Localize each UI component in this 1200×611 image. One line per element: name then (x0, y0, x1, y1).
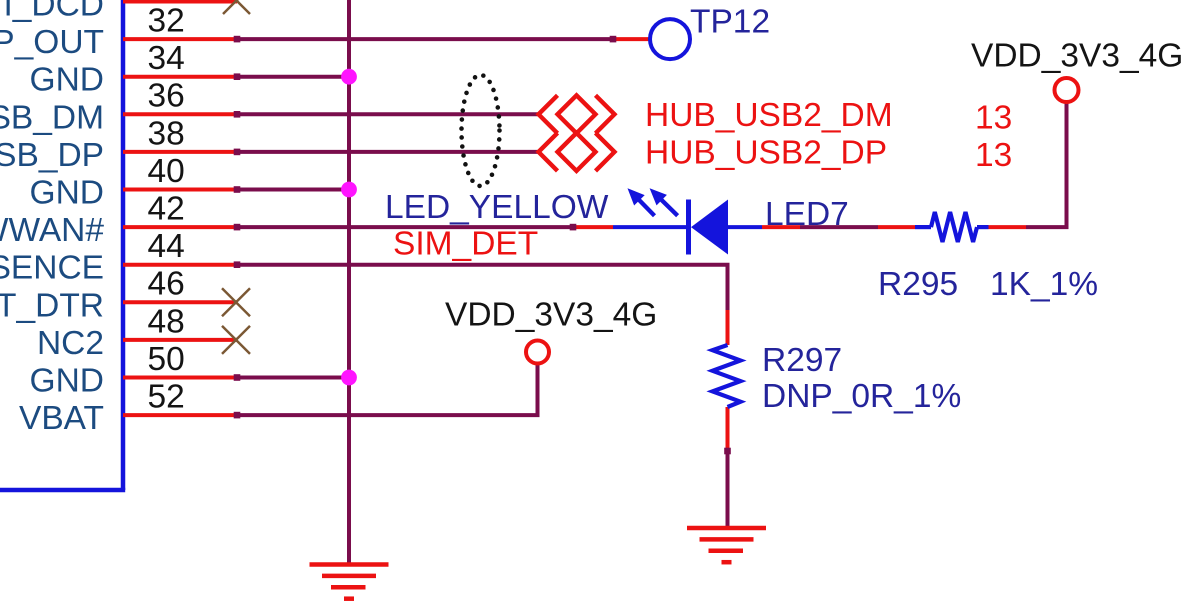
svg-text:GND: GND (30, 363, 104, 400)
svg-text:GND: GND (30, 62, 104, 99)
svg-text:DNP_0R_1%: DNP_0R_1% (762, 378, 961, 415)
svg-text:42: 42 (148, 191, 185, 228)
svg-text:44: 44 (148, 228, 185, 265)
svg-text:HUB_USB2_DM: HUB_USB2_DM (645, 97, 893, 134)
svg-text:LED_YELLOW: LED_YELLOW (385, 189, 609, 226)
svg-text:13: 13 (975, 137, 1012, 174)
svg-text:52: 52 (148, 379, 185, 416)
svg-text:HUB_USB2_DP: HUB_USB2_DP (645, 134, 887, 171)
svg-text:46: 46 (148, 266, 185, 303)
svg-text:R295: R295 (878, 266, 958, 303)
svg-text:13: 13 (975, 99, 1012, 136)
svg-text:SB_DM: SB_DM (0, 99, 104, 136)
svg-text:I_DCD: I_DCD (3, 0, 104, 24)
svg-text:NC2: NC2 (37, 325, 104, 362)
svg-text:T_DTR: T_DTR (0, 287, 104, 324)
svg-text:SENCE: SENCE (0, 250, 104, 287)
svg-text:TP12: TP12 (690, 4, 770, 41)
svg-text:VDD_3V3_4G: VDD_3V3_4G (971, 38, 1183, 75)
svg-text:VDD_3V3_4G: VDD_3V3_4G (445, 297, 657, 334)
svg-text:40: 40 (148, 153, 185, 190)
svg-text:SIM_DET: SIM_DET (393, 226, 538, 263)
svg-text:P_OUT: P_OUT (0, 24, 104, 61)
svg-text:GND: GND (30, 175, 104, 212)
svg-text:32: 32 (148, 3, 185, 40)
svg-text:34: 34 (148, 40, 185, 77)
svg-text:1K_1%: 1K_1% (990, 266, 1098, 303)
svg-text:WWAN#: WWAN# (0, 212, 104, 249)
svg-text:38: 38 (148, 115, 185, 152)
svg-text:50: 50 (148, 341, 185, 378)
svg-text:36: 36 (148, 78, 185, 115)
svg-text:VBAT: VBAT (19, 400, 104, 437)
svg-text:LED7: LED7 (765, 196, 849, 233)
svg-text:R297: R297 (762, 342, 842, 379)
svg-text:48: 48 (148, 303, 185, 340)
svg-text:SB_DP: SB_DP (0, 137, 104, 174)
